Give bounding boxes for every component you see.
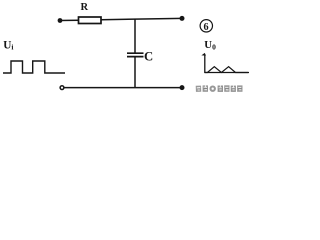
wire: top-left stub from input terminal to resistor: [59, 19, 79, 21]
watermark: [196, 85, 243, 92]
label Ui: [3, 40, 13, 52]
wire: vertical from capacitor down to bottom wire: [134, 57, 136, 88]
wire: top from resistor to output terminal: [101, 18, 182, 19]
svg-text:C: C: [144, 50, 153, 64]
node: top output terminal dot: [180, 16, 185, 21]
node: top input terminal dot: [58, 18, 63, 23]
svg-text:U0: U0: [204, 39, 216, 51]
svg-text:Ui: Ui: [3, 40, 13, 52]
capacitor C: [127, 53, 144, 56]
resistor R: [79, 17, 102, 24]
node: bottom input terminal (small circle): [60, 86, 64, 90]
label U0: [204, 39, 216, 51]
svg-text:R: R: [81, 2, 89, 13]
node B: circled 6 marker: [200, 20, 212, 33]
wire: bottom from input terminal to output terminal: [64, 87, 182, 89]
output waveform: capacitor charge/discharge humps: [205, 67, 248, 73]
svg-text:6: 6: [204, 22, 209, 33]
node: bottom output terminal dot: [180, 85, 185, 90]
label R: [81, 2, 89, 13]
output waveform axes: [201, 53, 249, 73]
input square waveform: [3, 61, 65, 73]
label C: [144, 50, 153, 64]
wire: vertical from top wire down to capacitor: [134, 19, 136, 53]
